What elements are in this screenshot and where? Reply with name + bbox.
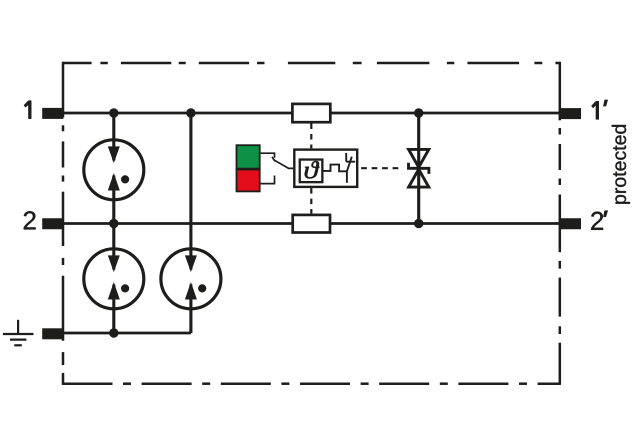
node line1/TVS [414,108,423,117]
wire vertical branch x=190.9 (GDT F3 to ground line) [189,282,192,333]
status indicator green field [237,145,260,168]
enclosure border top (dash-dot) [63,62,560,65]
label protected [612,125,630,204]
gas discharge tube F3 electrodes [185,248,206,311]
node line2/GDT [109,219,118,228]
gas discharge tube F1 electrodes [108,113,129,224]
node ground/GDT2 [109,328,118,337]
disconnect switch inside U1 [346,153,355,183]
gas discharge tube F2 electrodes [108,224,129,334]
node line1/branch [186,108,195,117]
enclosure border right (dash-dot) [559,62,562,385]
wire line 1 [63,112,560,115]
node line2/TVS [414,219,423,228]
terminal 2 block [42,218,63,229]
enclosure border bottom (dash-dot) [63,382,560,385]
theta symbol [305,161,319,178]
terminal 1 block [42,108,63,119]
label terminal 1 [24,101,31,119]
gas discharge tube F1 circle [84,140,144,200]
gas discharge tube F3 circle [161,249,221,309]
resistor R1 [292,104,330,122]
TVS suppressor diode crossbar [409,163,429,174]
indicator changeover switch [261,153,294,183]
wire ground line [63,332,191,335]
thermal disconnect device U1 box [294,150,357,187]
ground symbol [3,320,34,346]
terminal 2' block [560,218,581,229]
TVS suppressor diode lower triangle [409,169,429,187]
resistor R2 [293,215,330,233]
response waveform [324,165,347,172]
enclosure border left (dash-dot) [62,62,65,385]
TVS suppressor diode upper triangle [409,149,429,167]
gas discharge tube F2 circle [84,249,144,309]
wire TVS branch x=418.7 (line1 to line2) [417,113,420,224]
label terminal 2' [591,211,607,230]
dashed mechanical link thermal device to TVS [361,167,399,169]
thermal sensor inner box [300,160,323,183]
wire line 2 [63,222,560,225]
terminal 1' block [560,108,581,119]
label terminal 2 [24,211,36,229]
wire vertical branch x=190.9 (line1 to GDT F3) [189,113,192,271]
status indicator red field [237,170,260,192]
terminal ground block [42,328,63,339]
node line1/GDT1 [109,108,118,117]
dashed mechanical link R1 to thermal device [310,124,312,149]
dashed mechanical link thermal device to R2 [310,188,312,213]
label terminal 1' [591,100,607,120]
